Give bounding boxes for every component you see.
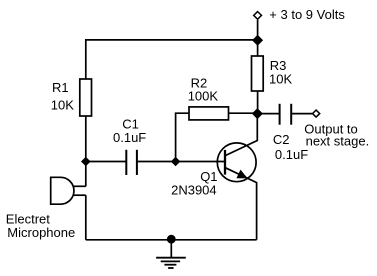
wire R2 to node C xyxy=(229,112,258,114)
wire node B up to R2 xyxy=(176,113,189,161)
resistor R3 xyxy=(252,56,264,91)
transistor Q1 emitter lead xyxy=(226,168,257,240)
capacitor C1 xyxy=(126,150,137,175)
svg-text:10K: 10K xyxy=(269,72,292,87)
wire node A to C1 xyxy=(86,161,126,163)
transistor Q1 emitter arrow xyxy=(237,171,246,178)
wire mic bottom pin down to bottom rail xyxy=(85,195,87,240)
node A (junction R1/C1/mic) xyxy=(81,157,91,167)
svg-text:C2: C2 xyxy=(273,132,290,147)
transistor Q1 body circle xyxy=(217,143,256,182)
resistor R1 xyxy=(80,79,92,116)
ground symbol xyxy=(156,258,186,268)
transistor Q1 collector lead xyxy=(226,114,258,156)
resistor R2 xyxy=(189,107,229,120)
wire node A down to mic top pin xyxy=(85,162,87,187)
wire R1 bottom to node A xyxy=(85,116,87,162)
node C (junction R2/R3/collector/C2) xyxy=(252,108,263,119)
microphone top pin xyxy=(73,185,86,187)
svg-text:100K: 100K xyxy=(188,89,219,104)
node D (ground junction) xyxy=(167,235,176,244)
wire J1 down to R3 xyxy=(257,40,259,56)
electret microphone body xyxy=(51,177,74,204)
terminal output (open diamond) xyxy=(313,110,320,117)
wire C2 to output terminal xyxy=(292,113,312,115)
svg-text:10K: 10K xyxy=(51,97,74,112)
wire ground stub xyxy=(170,240,172,258)
wire C1 to node B xyxy=(138,161,176,163)
svg-text:0.1uF: 0.1uF xyxy=(113,130,146,145)
terminal +V (open diamond) xyxy=(254,12,262,20)
wire R3 bottom to node C xyxy=(257,91,259,114)
capacitor C2 xyxy=(280,104,292,125)
svg-text:Microphone: Microphone xyxy=(7,225,75,240)
wire bottom rail xyxy=(86,239,257,241)
svg-text:+ 3 to 9 Volts: + 3 to 9 Volts xyxy=(269,7,345,22)
wire node C to C2 xyxy=(257,113,279,115)
node J1 (junction at top rail) xyxy=(252,35,263,46)
svg-text:2N3904: 2N3904 xyxy=(171,183,217,198)
transistor Q1 base bar xyxy=(224,150,226,175)
svg-text:next stage.: next stage. xyxy=(306,134,370,149)
svg-text:R1: R1 xyxy=(52,80,69,95)
wire +V terminal to top rail xyxy=(257,20,259,40)
wire node B to Q1 base xyxy=(176,161,225,163)
node B (junction C1/R2/base) xyxy=(171,157,181,167)
wire top rail xyxy=(86,40,258,79)
svg-text:0.1uF: 0.1uF xyxy=(275,147,308,162)
microphone bottom pin xyxy=(73,194,86,196)
